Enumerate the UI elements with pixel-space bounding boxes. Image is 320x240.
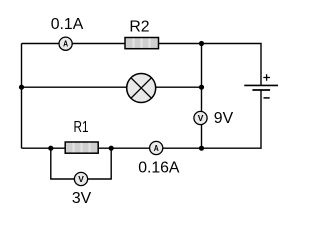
- svg-text:R1: R1: [74, 119, 89, 136]
- svg-text:9V: 9V: [214, 110, 234, 127]
- svg-text:V: V: [198, 113, 204, 123]
- svg-text:0.1A: 0.1A: [51, 16, 84, 33]
- svg-text:V: V: [78, 174, 84, 184]
- svg-text:0.16A: 0.16A: [138, 160, 180, 177]
- svg-text:R2: R2: [129, 19, 149, 36]
- svg-text:3V: 3V: [72, 190, 92, 207]
- svg-text:A: A: [154, 143, 159, 153]
- svg-text:A: A: [63, 39, 68, 49]
